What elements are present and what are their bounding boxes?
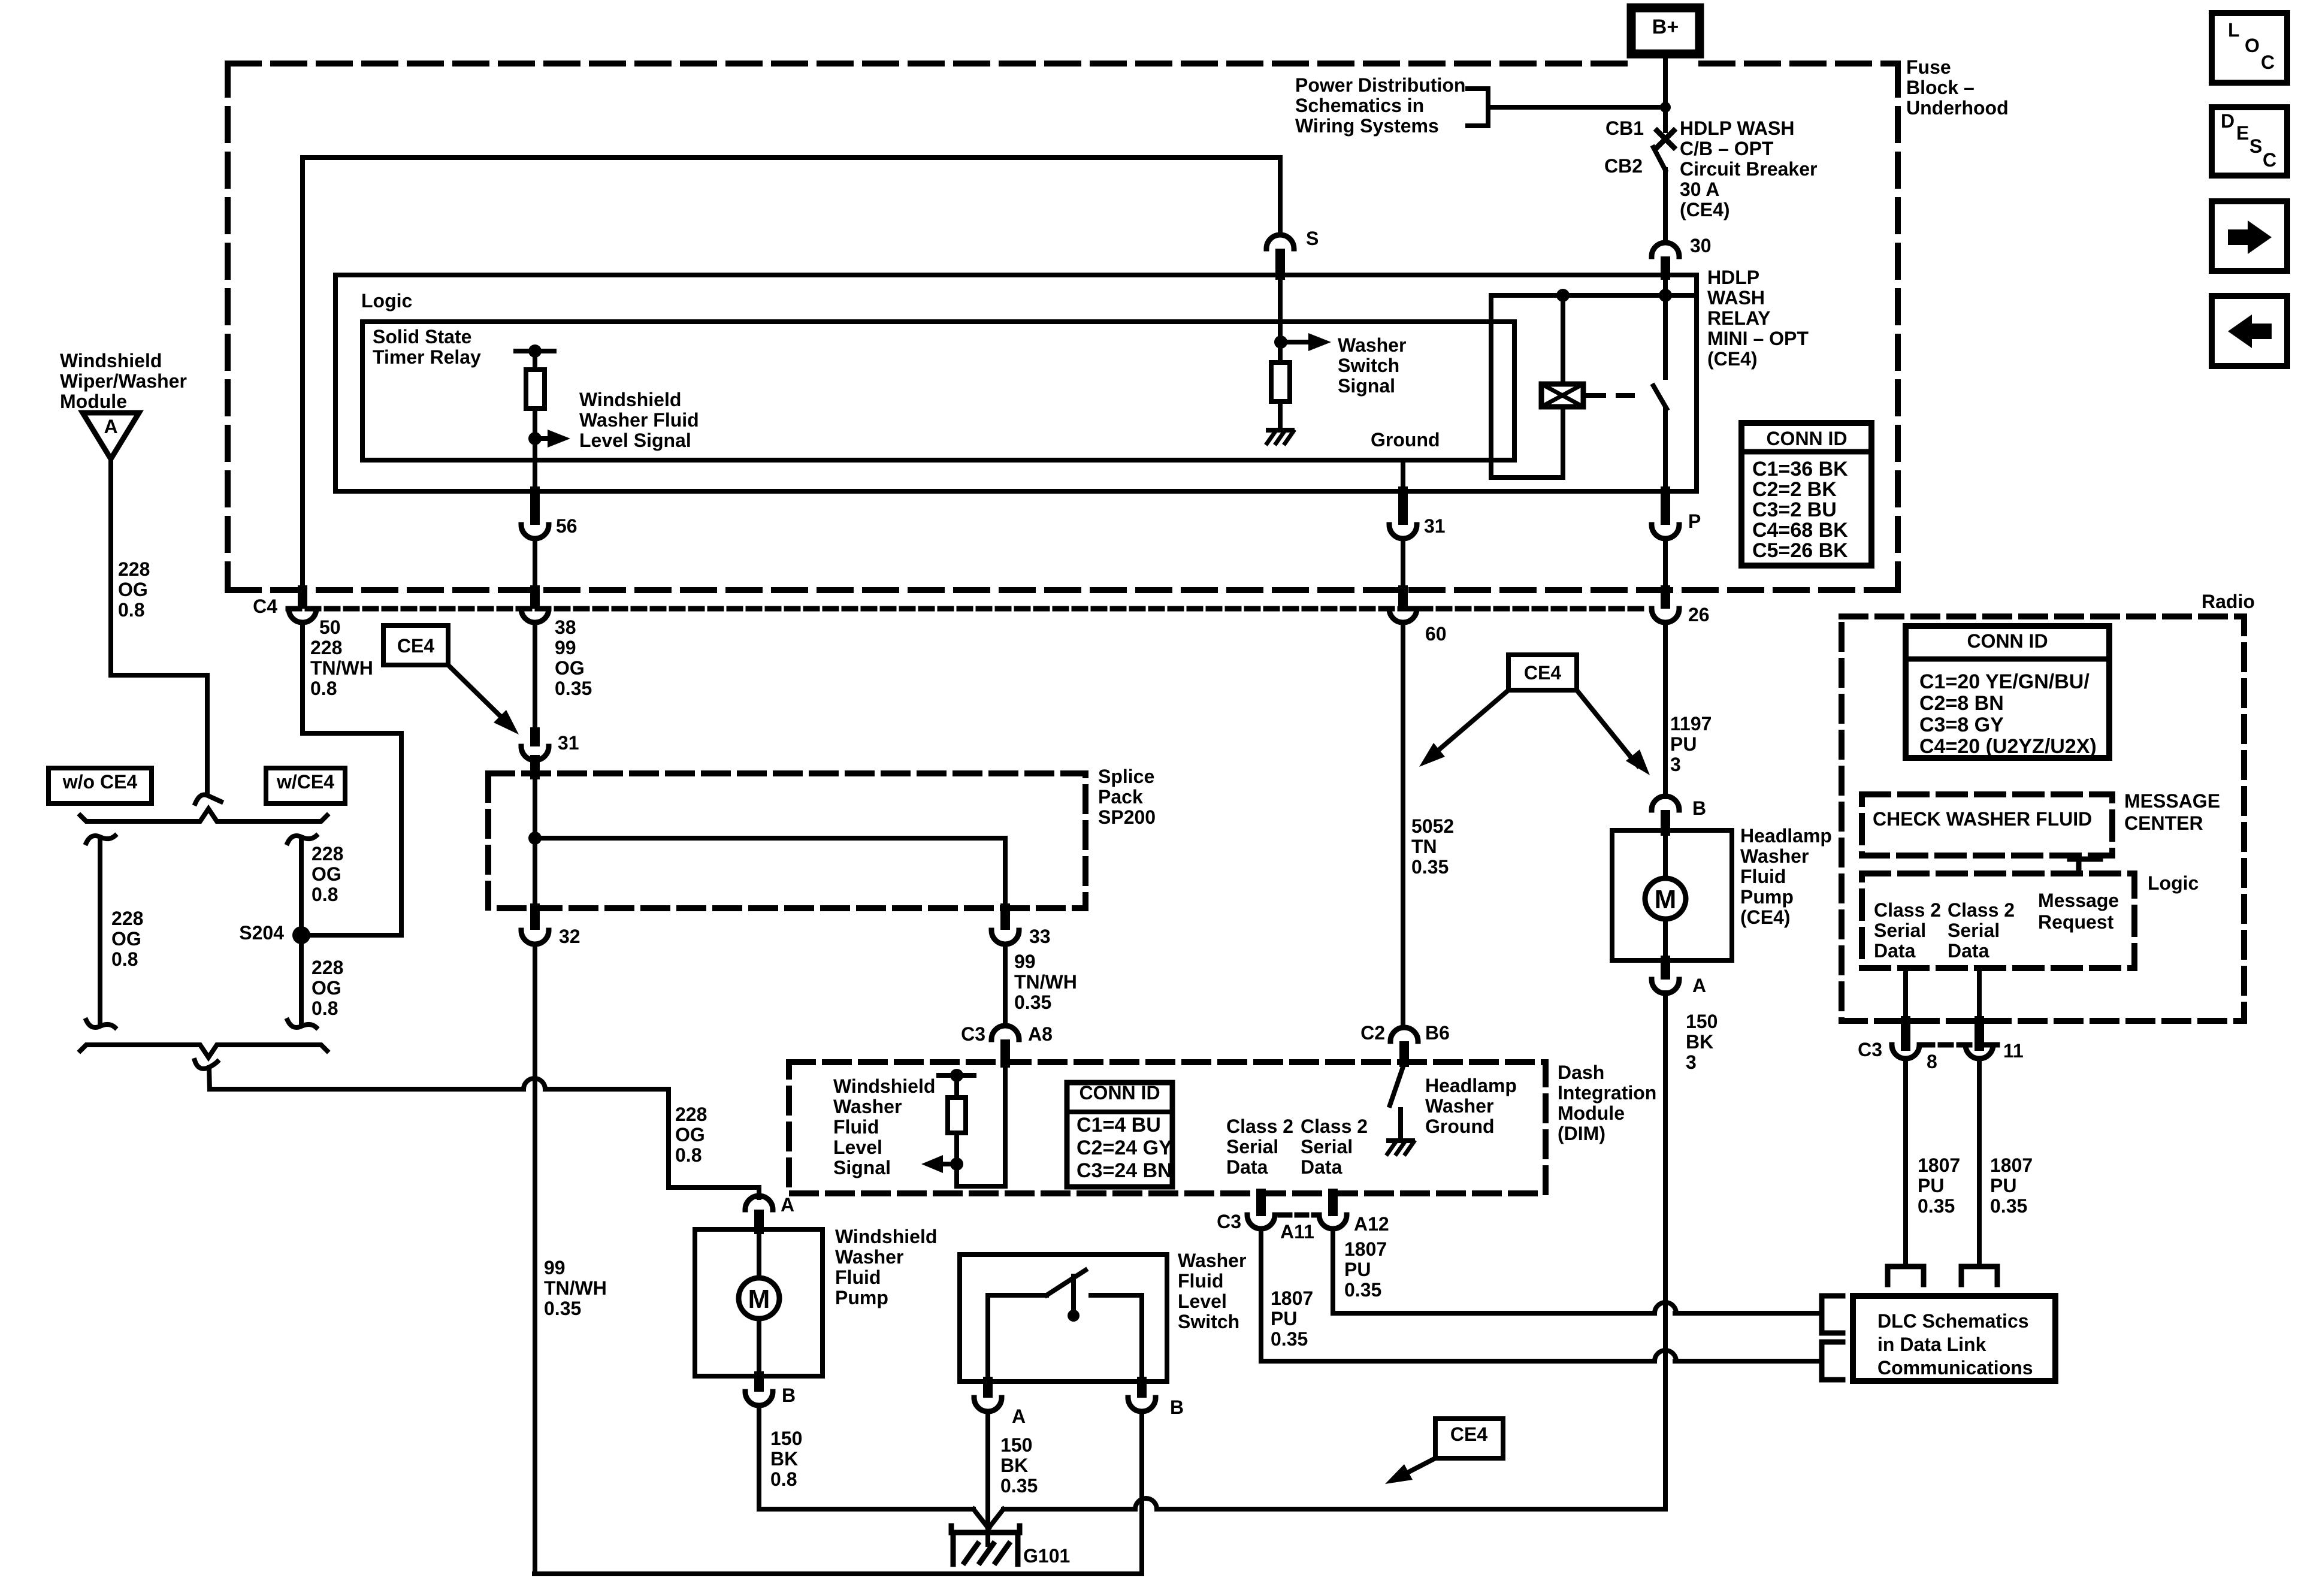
svg-text:50: 50 bbox=[319, 616, 341, 638]
svg-text:Windshield: Windshield bbox=[579, 389, 681, 410]
svg-text:WASH: WASH bbox=[1707, 287, 1765, 309]
svg-text:CENTER: CENTER bbox=[2124, 812, 2203, 834]
svg-text:PU: PU bbox=[1918, 1175, 1944, 1196]
svg-text:Schematics in: Schematics in bbox=[1295, 95, 1424, 116]
svg-text:G101: G101 bbox=[1023, 1545, 1070, 1567]
svg-text:C5=26 BK: C5=26 BK bbox=[1752, 539, 1848, 562]
svg-text:31: 31 bbox=[558, 732, 579, 754]
svg-text:5052: 5052 bbox=[1411, 815, 1454, 837]
svg-text:C: C bbox=[2261, 52, 2275, 73]
svg-text:C3=2 BU: C3=2 BU bbox=[1752, 498, 1837, 521]
svg-text:30: 30 bbox=[1690, 235, 1712, 256]
svg-text:1807: 1807 bbox=[1990, 1154, 2033, 1176]
svg-text:3: 3 bbox=[1670, 754, 1681, 775]
svg-text:0.35: 0.35 bbox=[1344, 1279, 1381, 1301]
svg-text:C1=36 BK: C1=36 BK bbox=[1752, 458, 1848, 480]
svg-text:w/o CE4: w/o CE4 bbox=[62, 771, 138, 793]
svg-text:Washer: Washer bbox=[1740, 845, 1809, 867]
svg-text:B: B bbox=[782, 1385, 796, 1406]
svg-text:Level: Level bbox=[1178, 1290, 1227, 1312]
svg-text:Signal: Signal bbox=[1338, 375, 1395, 397]
svg-text:S: S bbox=[2249, 135, 2262, 157]
svg-text:150: 150 bbox=[1000, 1434, 1032, 1456]
svg-text:A: A bbox=[104, 416, 117, 437]
svg-text:P: P bbox=[1688, 510, 1701, 532]
svg-text:M: M bbox=[748, 1284, 770, 1314]
svg-text:C1=4 BU: C1=4 BU bbox=[1077, 1114, 1161, 1136]
svg-text:Headlamp: Headlamp bbox=[1740, 825, 1832, 847]
svg-text:OG: OG bbox=[118, 579, 148, 600]
svg-text:MESSAGE: MESSAGE bbox=[2124, 790, 2220, 812]
svg-text:Logic: Logic bbox=[361, 290, 412, 312]
svg-text:A12: A12 bbox=[1354, 1213, 1389, 1235]
svg-text:0.35: 0.35 bbox=[1014, 992, 1051, 1013]
svg-text:Windshield: Windshield bbox=[833, 1075, 935, 1097]
svg-text:0.35: 0.35 bbox=[1271, 1328, 1308, 1350]
svg-text:1197: 1197 bbox=[1670, 713, 1712, 734]
svg-text:99: 99 bbox=[555, 637, 576, 658]
svg-text:Windshield: Windshield bbox=[835, 1226, 937, 1247]
svg-text:OG: OG bbox=[675, 1124, 705, 1145]
svg-text:C4: C4 bbox=[253, 596, 277, 617]
svg-text:MINI – OPT: MINI – OPT bbox=[1707, 328, 1809, 349]
svg-text:RELAY: RELAY bbox=[1707, 307, 1771, 329]
svg-text:CHECK WASHER FLUID: CHECK WASHER FLUID bbox=[1873, 808, 2092, 830]
svg-text:A: A bbox=[781, 1194, 794, 1216]
svg-text:CB1: CB1 bbox=[1605, 117, 1644, 139]
svg-text:60: 60 bbox=[1425, 623, 1447, 645]
svg-text:Ground: Ground bbox=[1371, 429, 1440, 451]
svg-text:Fluid: Fluid bbox=[835, 1266, 881, 1288]
svg-text:Module: Module bbox=[60, 391, 127, 412]
svg-text:CONN ID: CONN ID bbox=[1766, 428, 1847, 449]
svg-text:B: B bbox=[1692, 797, 1706, 819]
svg-text:BK: BK bbox=[1686, 1031, 1713, 1053]
svg-text:26: 26 bbox=[1688, 604, 1710, 625]
svg-text:1807: 1807 bbox=[1918, 1154, 1960, 1176]
svg-text:L: L bbox=[2228, 19, 2240, 41]
svg-text:C2=24 GY: C2=24 GY bbox=[1077, 1136, 1172, 1159]
svg-text:1807: 1807 bbox=[1271, 1287, 1313, 1309]
svg-text:C: C bbox=[2263, 149, 2276, 171]
svg-text:Timer Relay: Timer Relay bbox=[373, 346, 481, 368]
svg-text:228: 228 bbox=[111, 908, 143, 929]
svg-text:Serial: Serial bbox=[1948, 920, 2000, 941]
svg-text:0.35: 0.35 bbox=[1918, 1195, 1955, 1217]
svg-text:Block –: Block – bbox=[1906, 77, 1975, 98]
svg-text:CE4: CE4 bbox=[397, 635, 434, 657]
svg-text:Pack: Pack bbox=[1098, 786, 1143, 808]
svg-text:0.8: 0.8 bbox=[312, 884, 338, 905]
svg-text:TN/WH: TN/WH bbox=[310, 657, 373, 679]
svg-text:PU: PU bbox=[1344, 1259, 1371, 1280]
svg-text:S204: S204 bbox=[239, 922, 284, 944]
svg-text:0.8: 0.8 bbox=[310, 678, 337, 699]
svg-text:Fuse: Fuse bbox=[1906, 56, 1951, 78]
svg-text:8: 8 bbox=[1927, 1051, 1937, 1072]
svg-text:C1=20 YE/GN/BU/: C1=20 YE/GN/BU/ bbox=[1919, 670, 2090, 693]
svg-text:S: S bbox=[1306, 228, 1319, 249]
svg-text:Solid State: Solid State bbox=[373, 326, 471, 347]
svg-text:Serial: Serial bbox=[1226, 1136, 1278, 1157]
svg-text:Class 2: Class 2 bbox=[1301, 1116, 1368, 1137]
svg-text:OG: OG bbox=[312, 863, 341, 885]
svg-text:Level: Level bbox=[833, 1136, 882, 1158]
svg-text:Logic: Logic bbox=[2148, 872, 2199, 894]
svg-text:TN/WH: TN/WH bbox=[544, 1277, 607, 1299]
svg-text:Dash: Dash bbox=[1558, 1062, 1604, 1083]
svg-text:CB2: CB2 bbox=[1604, 155, 1643, 177]
svg-text:(DIM): (DIM) bbox=[1558, 1123, 1605, 1144]
svg-text:HDLP: HDLP bbox=[1707, 267, 1759, 288]
svg-text:0.35: 0.35 bbox=[555, 678, 592, 699]
svg-text:Communications: Communications bbox=[1877, 1357, 2033, 1379]
svg-text:C3: C3 bbox=[961, 1023, 985, 1045]
svg-text:CE4: CE4 bbox=[1524, 662, 1561, 684]
svg-text:Level Signal: Level Signal bbox=[579, 430, 691, 451]
svg-text:Data: Data bbox=[1226, 1156, 1268, 1178]
svg-text:99: 99 bbox=[1014, 951, 1036, 972]
svg-text:O: O bbox=[2245, 35, 2260, 56]
svg-text:Module: Module bbox=[1558, 1102, 1625, 1124]
svg-text:228: 228 bbox=[118, 558, 150, 580]
svg-text:Headlamp: Headlamp bbox=[1425, 1075, 1517, 1096]
svg-text:Underhood: Underhood bbox=[1906, 97, 2009, 119]
svg-text:(CE4): (CE4) bbox=[1740, 906, 1791, 928]
svg-text:BK: BK bbox=[1000, 1455, 1028, 1476]
svg-text:32: 32 bbox=[559, 926, 580, 947]
svg-text:SP200: SP200 bbox=[1098, 806, 1156, 828]
svg-text:0.8: 0.8 bbox=[770, 1468, 797, 1490]
svg-text:99: 99 bbox=[544, 1257, 566, 1278]
svg-text:BK: BK bbox=[770, 1448, 798, 1470]
svg-text:B+: B+ bbox=[1652, 16, 1679, 38]
svg-text:33: 33 bbox=[1029, 926, 1051, 947]
svg-text:B: B bbox=[1170, 1396, 1184, 1418]
svg-text:OG: OG bbox=[555, 657, 585, 679]
svg-text:OG: OG bbox=[111, 928, 141, 950]
svg-text:Washer: Washer bbox=[1178, 1250, 1246, 1271]
svg-text:Washer Fluid: Washer Fluid bbox=[579, 409, 699, 431]
svg-text:A11: A11 bbox=[1280, 1221, 1314, 1243]
svg-text:3: 3 bbox=[1686, 1051, 1697, 1073]
svg-text:Washer: Washer bbox=[1425, 1095, 1493, 1117]
svg-text:HDLP WASH: HDLP WASH bbox=[1680, 117, 1794, 139]
svg-text:M: M bbox=[1655, 885, 1677, 914]
svg-text:PU: PU bbox=[1271, 1308, 1297, 1329]
svg-text:30 A: 30 A bbox=[1680, 179, 1719, 200]
svg-text:38: 38 bbox=[555, 616, 576, 638]
svg-text:in Data Link: in Data Link bbox=[1877, 1334, 1986, 1355]
svg-text:Class 2: Class 2 bbox=[1226, 1116, 1293, 1137]
svg-text:0.35: 0.35 bbox=[1990, 1195, 2027, 1217]
svg-text:Integration: Integration bbox=[1558, 1082, 1656, 1104]
svg-text:Pump: Pump bbox=[1740, 886, 1794, 908]
svg-text:Radio: Radio bbox=[2202, 591, 2255, 612]
svg-text:TN/WH: TN/WH bbox=[1014, 971, 1077, 993]
svg-text:150: 150 bbox=[770, 1428, 802, 1449]
svg-text:Washer: Washer bbox=[1338, 334, 1406, 356]
svg-text:Splice: Splice bbox=[1098, 766, 1154, 787]
svg-text:B6: B6 bbox=[1425, 1022, 1450, 1044]
svg-text:w/CE4: w/CE4 bbox=[276, 771, 334, 793]
svg-text:PU: PU bbox=[1670, 733, 1697, 755]
svg-text:Circuit Breaker: Circuit Breaker bbox=[1680, 158, 1817, 180]
svg-text:C3: C3 bbox=[1217, 1211, 1241, 1232]
svg-text:CONN ID: CONN ID bbox=[1079, 1082, 1160, 1104]
svg-text:Serial: Serial bbox=[1874, 920, 1926, 941]
svg-text:(CE4): (CE4) bbox=[1680, 199, 1730, 220]
svg-text:PU: PU bbox=[1990, 1175, 2016, 1196]
svg-text:Wiring Systems: Wiring Systems bbox=[1295, 115, 1439, 137]
svg-text:DLC Schematics: DLC Schematics bbox=[1877, 1310, 2029, 1332]
svg-text:0.35: 0.35 bbox=[544, 1298, 581, 1319]
svg-text:Class 2: Class 2 bbox=[1948, 899, 2015, 921]
svg-text:0.35: 0.35 bbox=[1000, 1475, 1038, 1497]
svg-text:Signal: Signal bbox=[833, 1157, 891, 1178]
svg-text:0.8: 0.8 bbox=[111, 948, 138, 970]
svg-text:Fluid: Fluid bbox=[1740, 866, 1786, 887]
svg-text:228: 228 bbox=[310, 637, 342, 658]
svg-text:TN: TN bbox=[1411, 836, 1437, 857]
svg-text:CONN ID: CONN ID bbox=[1967, 630, 2048, 652]
svg-text:Serial: Serial bbox=[1301, 1136, 1353, 1157]
svg-text:A8: A8 bbox=[1028, 1023, 1053, 1045]
svg-text:0.8: 0.8 bbox=[118, 599, 144, 621]
svg-text:C2: C2 bbox=[1360, 1022, 1385, 1044]
svg-text:OG: OG bbox=[312, 977, 341, 999]
svg-text:228: 228 bbox=[312, 957, 343, 978]
svg-text:Ground: Ground bbox=[1425, 1116, 1495, 1137]
svg-text:Washer: Washer bbox=[835, 1246, 903, 1268]
svg-text:150: 150 bbox=[1686, 1011, 1718, 1032]
svg-text:0.8: 0.8 bbox=[312, 997, 338, 1019]
svg-text:0.35: 0.35 bbox=[1411, 856, 1449, 878]
svg-text:Switch: Switch bbox=[1338, 355, 1399, 376]
svg-text:Switch: Switch bbox=[1178, 1311, 1239, 1332]
svg-text:Data: Data bbox=[1301, 1156, 1342, 1178]
svg-text:D: D bbox=[2221, 110, 2234, 132]
svg-text:(CE4): (CE4) bbox=[1707, 348, 1758, 370]
svg-text:C2=8 BN: C2=8 BN bbox=[1919, 692, 2004, 715]
svg-text:0.8: 0.8 bbox=[675, 1144, 702, 1166]
svg-text:Request: Request bbox=[2038, 911, 2114, 933]
svg-text:56: 56 bbox=[556, 515, 577, 537]
svg-text:228: 228 bbox=[675, 1104, 707, 1125]
svg-text:Data: Data bbox=[1874, 940, 1916, 962]
svg-text:C3=24 BN: C3=24 BN bbox=[1077, 1159, 1172, 1182]
svg-text:A: A bbox=[1692, 975, 1706, 996]
svg-text:C3: C3 bbox=[1858, 1039, 1882, 1060]
svg-text:1807: 1807 bbox=[1344, 1238, 1387, 1260]
svg-text:A: A bbox=[1012, 1405, 1026, 1427]
svg-text:C3=8 GY: C3=8 GY bbox=[1919, 714, 2004, 736]
svg-text:C/B – OPT: C/B – OPT bbox=[1680, 138, 1774, 159]
svg-text:Windshield: Windshield bbox=[60, 350, 162, 371]
svg-text:C4=68 BK: C4=68 BK bbox=[1752, 519, 1848, 542]
svg-text:C4=20 (U2YZ/U2X): C4=20 (U2YZ/U2X) bbox=[1919, 735, 2097, 758]
svg-text:Power Distribution: Power Distribution bbox=[1295, 74, 1465, 96]
svg-text:Fluid: Fluid bbox=[1178, 1270, 1223, 1292]
svg-text:Washer: Washer bbox=[833, 1096, 902, 1117]
svg-text:Data: Data bbox=[1948, 940, 1989, 962]
svg-text:E: E bbox=[2236, 122, 2249, 144]
svg-text:Fluid: Fluid bbox=[833, 1116, 879, 1138]
svg-text:Wiper/Washer: Wiper/Washer bbox=[60, 370, 187, 392]
svg-text:CE4: CE4 bbox=[1450, 1423, 1487, 1445]
svg-text:Class 2: Class 2 bbox=[1874, 899, 1941, 921]
svg-text:228: 228 bbox=[312, 843, 343, 864]
svg-text:Message: Message bbox=[2038, 890, 2119, 911]
svg-text:31: 31 bbox=[1424, 515, 1446, 537]
svg-text:C2=2 BK: C2=2 BK bbox=[1752, 478, 1837, 501]
svg-text:11: 11 bbox=[2003, 1040, 2024, 1062]
svg-text:Pump: Pump bbox=[835, 1287, 888, 1308]
